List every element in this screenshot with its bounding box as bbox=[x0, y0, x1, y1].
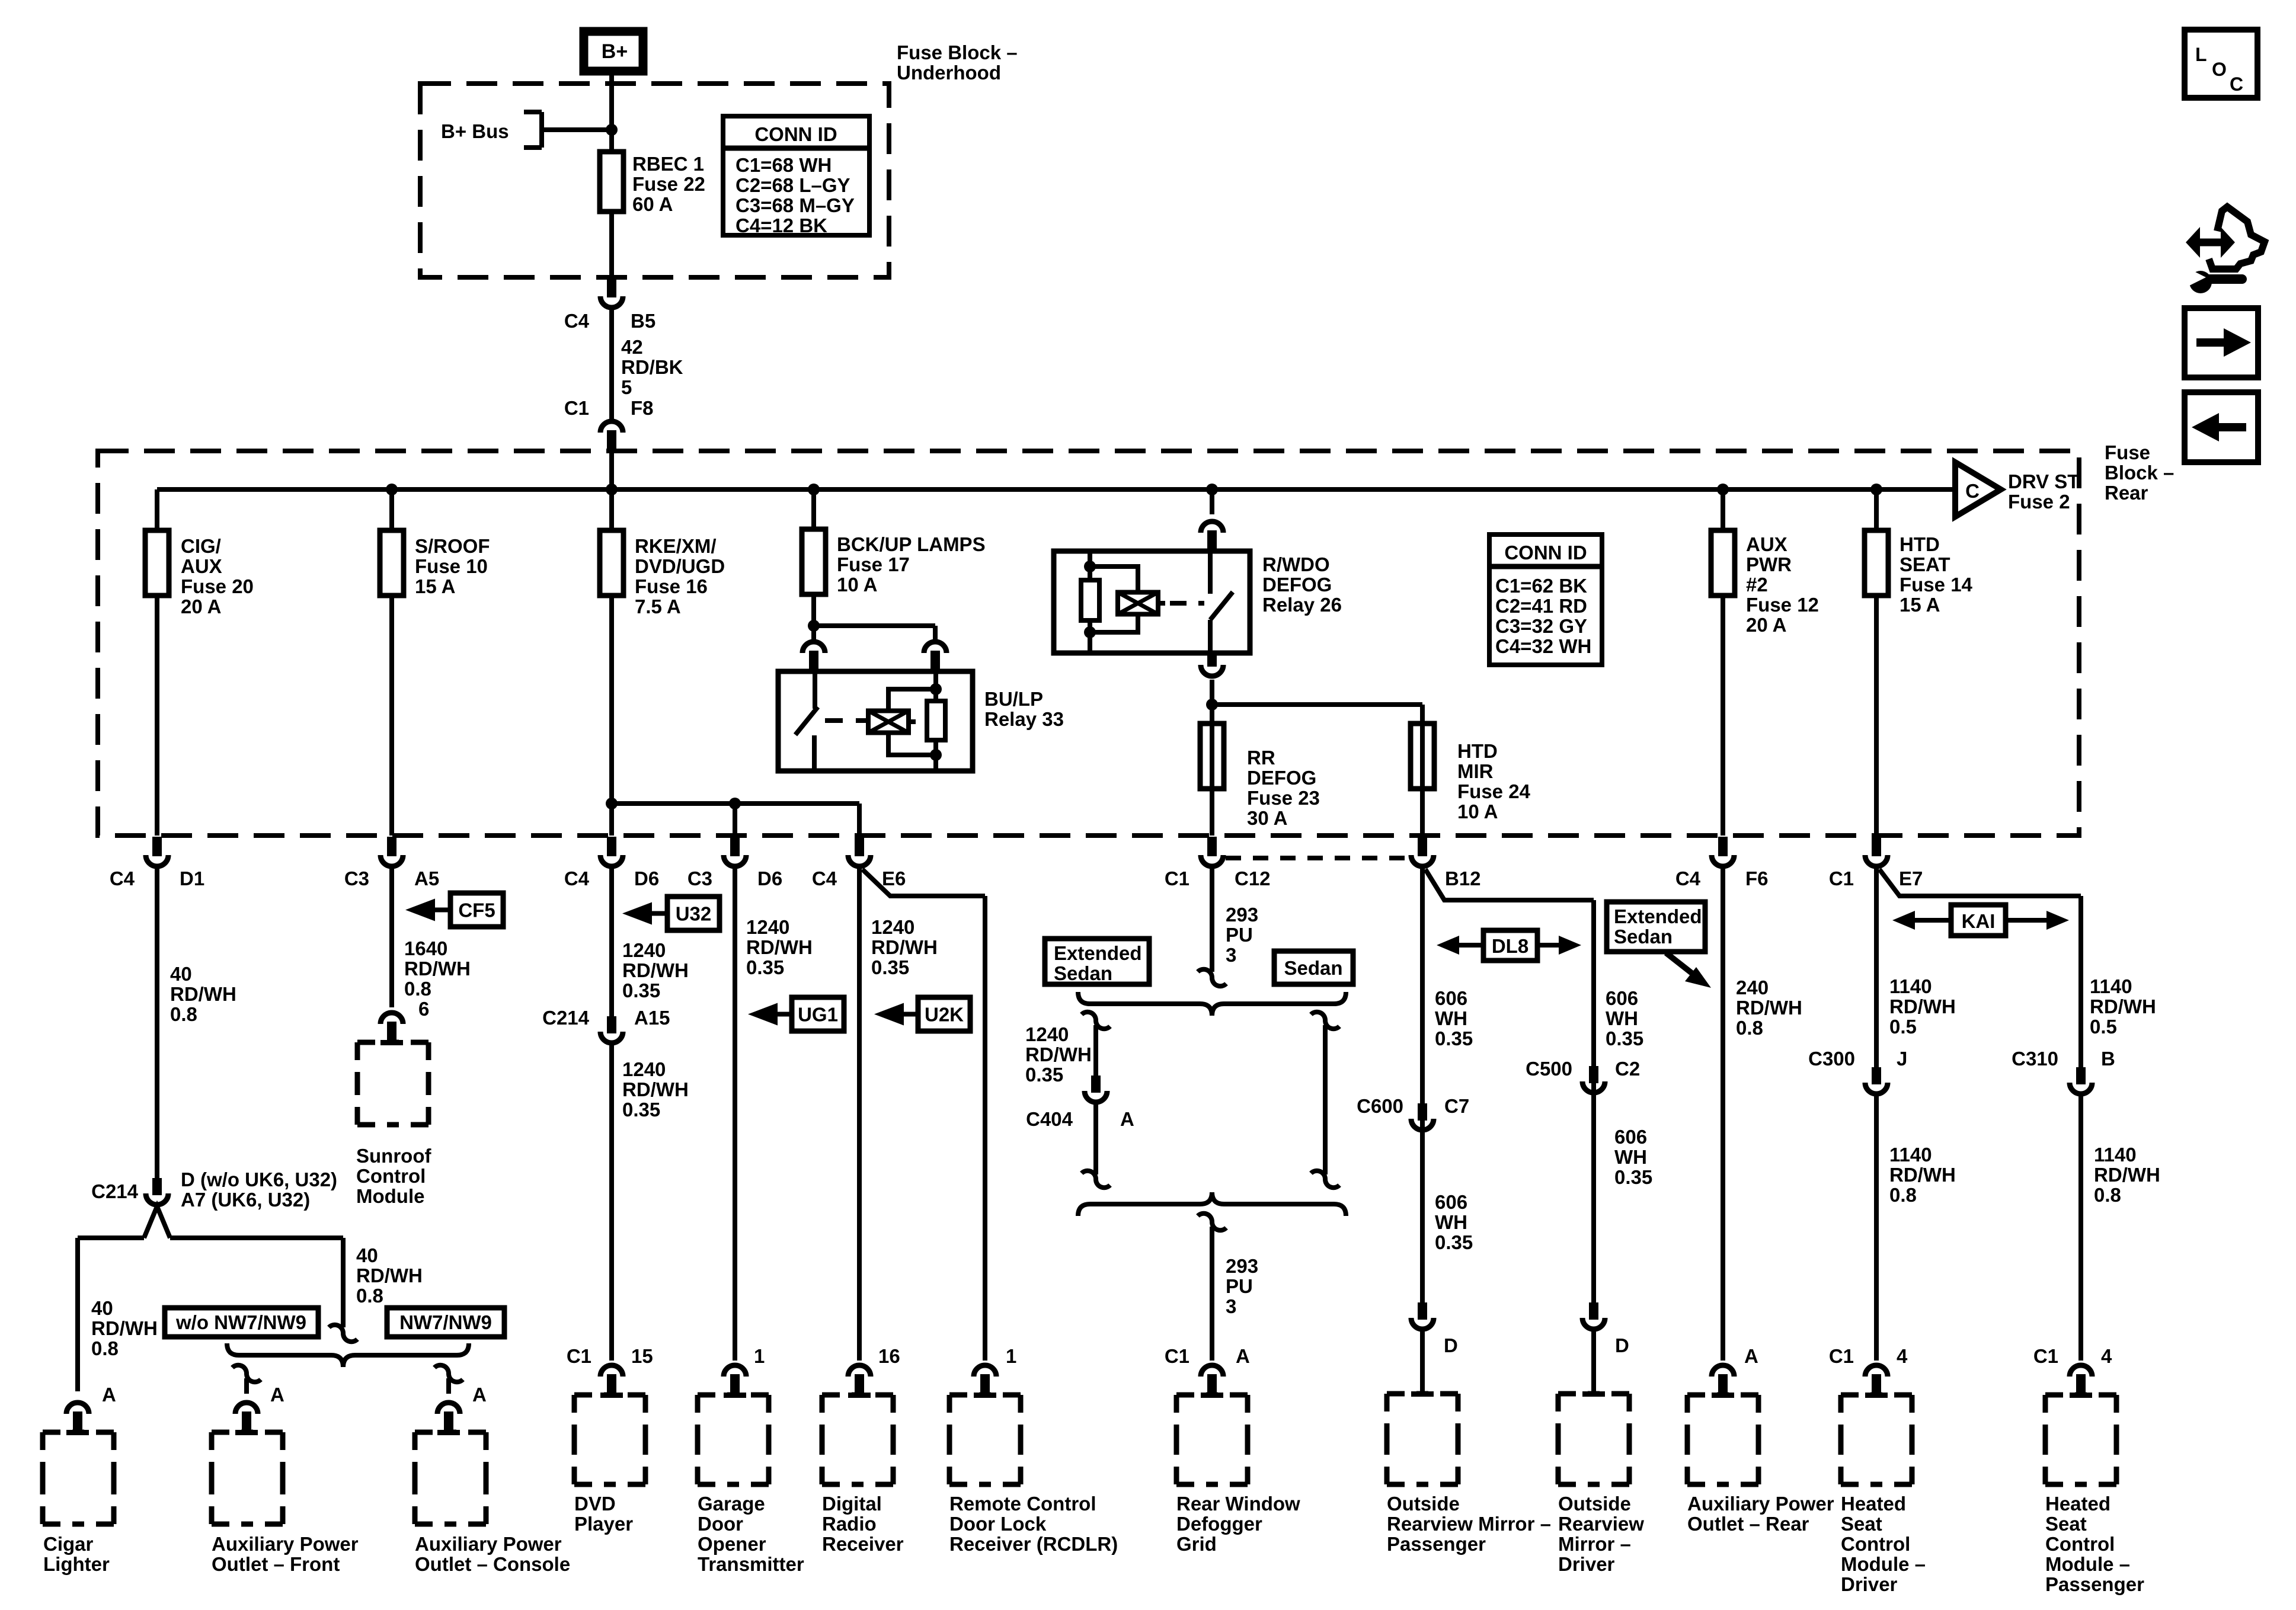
svg-text:1140: 1140 bbox=[2094, 1144, 2137, 1166]
svg-text:1240: 1240 bbox=[746, 916, 789, 938]
svg-text:RD/WH: RD/WH bbox=[356, 1265, 423, 1286]
svg-text:B5: B5 bbox=[631, 310, 655, 332]
svg-text:WH: WH bbox=[1435, 1211, 1467, 1233]
svg-text:C310: C310 bbox=[2012, 1048, 2058, 1070]
svg-text:Relay 33: Relay 33 bbox=[984, 708, 1064, 730]
svg-text:293: 293 bbox=[1226, 904, 1258, 926]
svg-text:C300: C300 bbox=[1808, 1048, 1855, 1070]
svg-text:C4=12 BK: C4=12 BK bbox=[736, 215, 827, 236]
svg-text:D: D bbox=[1444, 1334, 1458, 1356]
svg-text:C1=68 WH: C1=68 WH bbox=[736, 154, 832, 176]
svg-text:HTD: HTD bbox=[1900, 533, 1940, 555]
svg-text:F8: F8 bbox=[631, 397, 654, 419]
svg-text:RD/WH: RD/WH bbox=[170, 983, 236, 1005]
svg-text:B+ Bus: B+ Bus bbox=[441, 120, 509, 142]
svg-text:RD/WH: RD/WH bbox=[871, 936, 938, 958]
svg-text:RD/WH: RD/WH bbox=[1736, 997, 1802, 1019]
svg-text:C7: C7 bbox=[1444, 1095, 1469, 1117]
svg-text:1640: 1640 bbox=[404, 937, 447, 959]
svg-text:RKE/XM/: RKE/XM/ bbox=[635, 535, 717, 557]
svg-text:Remote Control: Remote Control bbox=[949, 1493, 1096, 1515]
svg-text:NW7/NW9: NW7/NW9 bbox=[399, 1311, 492, 1333]
svg-text:1140: 1140 bbox=[2090, 975, 2132, 997]
svg-text:Lighter: Lighter bbox=[43, 1553, 110, 1575]
svg-text:10 A: 10 A bbox=[837, 574, 877, 596]
svg-text:C214: C214 bbox=[542, 1007, 590, 1029]
svg-text:C2: C2 bbox=[1615, 1058, 1640, 1080]
svg-text:RD/WH: RD/WH bbox=[91, 1317, 158, 1339]
svg-text:A: A bbox=[1744, 1345, 1758, 1367]
svg-text:606: 606 bbox=[1435, 987, 1467, 1009]
svg-text:w/o NW7/NW9: w/o NW7/NW9 bbox=[175, 1311, 306, 1333]
svg-text:U2K: U2K bbox=[925, 1004, 964, 1026]
svg-text:C1: C1 bbox=[1165, 1345, 1189, 1367]
svg-text:C1: C1 bbox=[567, 1345, 591, 1367]
svg-text:DVD/UGD: DVD/UGD bbox=[635, 555, 725, 577]
svg-text:20 A: 20 A bbox=[1746, 614, 1786, 636]
svg-text:CONN ID: CONN ID bbox=[754, 123, 837, 145]
svg-text:A15: A15 bbox=[634, 1007, 670, 1029]
svg-text:1: 1 bbox=[754, 1345, 765, 1367]
svg-text:RD/BK: RD/BK bbox=[621, 356, 683, 378]
svg-text:Defogger: Defogger bbox=[1176, 1513, 1262, 1535]
svg-text:U32: U32 bbox=[676, 903, 712, 925]
svg-text:Extended: Extended bbox=[1054, 942, 1142, 964]
svg-text:Door: Door bbox=[698, 1513, 743, 1535]
svg-text:C12: C12 bbox=[1235, 868, 1271, 889]
svg-text:Fuse 10: Fuse 10 bbox=[415, 555, 488, 577]
svg-text:42: 42 bbox=[621, 336, 643, 358]
svg-text:AUX: AUX bbox=[1746, 533, 1787, 555]
svg-text:BU/LP: BU/LP bbox=[984, 688, 1043, 710]
svg-text:C4: C4 bbox=[812, 868, 837, 889]
svg-text:0.8: 0.8 bbox=[356, 1285, 383, 1307]
svg-text:Fuse 24: Fuse 24 bbox=[1457, 780, 1531, 802]
svg-text:40: 40 bbox=[91, 1297, 113, 1319]
svg-text:RD/WH: RD/WH bbox=[1025, 1044, 1092, 1065]
svg-text:L: L bbox=[2195, 44, 2207, 65]
svg-text:Rear Window: Rear Window bbox=[1176, 1493, 1300, 1515]
svg-text:Receiver (RCDLR): Receiver (RCDLR) bbox=[949, 1533, 1118, 1555]
svg-text:606: 606 bbox=[1614, 1126, 1647, 1148]
svg-text:Control: Control bbox=[356, 1165, 426, 1187]
svg-text:C3=68 M–GY: C3=68 M–GY bbox=[736, 194, 855, 216]
svg-text:C1=62 BK: C1=62 BK bbox=[1495, 575, 1587, 597]
svg-text:Fuse 16: Fuse 16 bbox=[635, 575, 708, 597]
svg-text:Passenger: Passenger bbox=[1387, 1533, 1486, 1555]
svg-text:1240: 1240 bbox=[1025, 1023, 1069, 1045]
svg-text:606: 606 bbox=[1435, 1191, 1467, 1213]
svg-text:Driver: Driver bbox=[1841, 1573, 1898, 1595]
svg-text:WH: WH bbox=[1606, 1007, 1638, 1029]
svg-text:E7: E7 bbox=[1899, 868, 1923, 889]
svg-text:B12: B12 bbox=[1445, 868, 1481, 889]
svg-text:Transmitter: Transmitter bbox=[698, 1553, 804, 1575]
svg-text:606: 606 bbox=[1606, 987, 1638, 1009]
svg-text:BCK/UP LAMPS: BCK/UP LAMPS bbox=[837, 533, 986, 555]
svg-text:B+: B+ bbox=[602, 40, 628, 63]
svg-text:WH: WH bbox=[1614, 1146, 1647, 1168]
svg-text:0.5: 0.5 bbox=[2090, 1016, 2117, 1038]
svg-text:C4: C4 bbox=[564, 310, 590, 332]
svg-text:C1: C1 bbox=[1829, 1345, 1854, 1367]
svg-text:C214: C214 bbox=[91, 1180, 139, 1202]
svg-text:CIG/: CIG/ bbox=[181, 535, 221, 557]
svg-text:30 A: 30 A bbox=[1247, 807, 1287, 829]
svg-text:Control: Control bbox=[1841, 1533, 1910, 1555]
svg-text:C3=32 GY: C3=32 GY bbox=[1495, 615, 1587, 637]
svg-text:0.8: 0.8 bbox=[1736, 1017, 1763, 1039]
svg-text:RD/WH: RD/WH bbox=[2094, 1164, 2160, 1186]
svg-text:RD/WH: RD/WH bbox=[2090, 996, 2156, 1017]
svg-text:Module –: Module – bbox=[2045, 1553, 2130, 1575]
svg-text:RD/WH: RD/WH bbox=[746, 936, 813, 958]
svg-text:D1: D1 bbox=[180, 868, 204, 889]
svg-text:C4: C4 bbox=[1675, 868, 1701, 889]
svg-text:Fuse Block –: Fuse Block – bbox=[897, 41, 1018, 63]
svg-text:C2=41 RD: C2=41 RD bbox=[1495, 595, 1587, 617]
svg-text:D6: D6 bbox=[634, 868, 659, 889]
svg-text:Outside: Outside bbox=[1558, 1493, 1631, 1515]
svg-text:Auxiliary Power: Auxiliary Power bbox=[212, 1533, 359, 1555]
svg-text:C: C bbox=[1965, 480, 1980, 502]
svg-text:B: B bbox=[2101, 1048, 2115, 1070]
svg-text:O: O bbox=[2212, 59, 2227, 80]
svg-text:RD/WH: RD/WH bbox=[622, 1078, 689, 1100]
svg-text:5: 5 bbox=[621, 376, 632, 398]
svg-text:PU: PU bbox=[1226, 1275, 1253, 1297]
svg-text:RD/WH: RD/WH bbox=[622, 959, 689, 981]
svg-text:C1: C1 bbox=[2033, 1345, 2058, 1367]
svg-text:15 A: 15 A bbox=[415, 575, 455, 597]
svg-text:RD/WH: RD/WH bbox=[1889, 996, 1956, 1017]
svg-text:Fuse 14: Fuse 14 bbox=[1900, 574, 1973, 596]
svg-text:0.8: 0.8 bbox=[404, 978, 431, 1000]
svg-text:0.8: 0.8 bbox=[170, 1003, 197, 1025]
svg-text:293: 293 bbox=[1226, 1255, 1258, 1277]
svg-text:DEFOG: DEFOG bbox=[1262, 574, 1332, 596]
svg-text:Outlet – Front: Outlet – Front bbox=[212, 1553, 340, 1575]
svg-text:Receiver: Receiver bbox=[822, 1533, 904, 1555]
svg-text:Fuse 23: Fuse 23 bbox=[1247, 787, 1320, 809]
svg-text:C: C bbox=[2230, 73, 2243, 95]
svg-text:15: 15 bbox=[631, 1345, 653, 1367]
svg-text:CONN ID: CONN ID bbox=[1504, 542, 1587, 564]
svg-text:0.8: 0.8 bbox=[91, 1337, 119, 1359]
svg-text:DEFOG: DEFOG bbox=[1247, 767, 1316, 789]
svg-text:40: 40 bbox=[170, 963, 192, 985]
svg-text:Grid: Grid bbox=[1176, 1533, 1217, 1555]
svg-text:Door Lock: Door Lock bbox=[949, 1513, 1047, 1535]
svg-text:6: 6 bbox=[418, 998, 429, 1020]
svg-text:C4: C4 bbox=[564, 868, 590, 889]
svg-text:20 A: 20 A bbox=[181, 596, 221, 617]
svg-text:A: A bbox=[270, 1384, 284, 1406]
svg-text:Outlet – Rear: Outlet – Rear bbox=[1687, 1513, 1809, 1535]
svg-text:Relay 26: Relay 26 bbox=[1262, 594, 1342, 616]
svg-text:AUX: AUX bbox=[181, 555, 222, 577]
svg-text:A5: A5 bbox=[414, 868, 439, 889]
svg-text:7.5 A: 7.5 A bbox=[635, 596, 681, 617]
svg-text:Auxiliary Power: Auxiliary Power bbox=[1687, 1493, 1834, 1515]
svg-text:Fuse 12: Fuse 12 bbox=[1746, 594, 1819, 616]
svg-text:DRV ST: DRV ST bbox=[2008, 470, 2079, 492]
svg-text:Cigar: Cigar bbox=[43, 1533, 94, 1555]
svg-text:C1: C1 bbox=[1829, 868, 1854, 889]
svg-text:Rearview Mirror –: Rearview Mirror – bbox=[1387, 1513, 1551, 1535]
svg-text:C2=68 L–GY: C2=68 L–GY bbox=[736, 174, 850, 196]
svg-text:Rear: Rear bbox=[2105, 482, 2148, 504]
svg-text:Heated: Heated bbox=[1841, 1493, 1906, 1515]
svg-text:1: 1 bbox=[1006, 1345, 1016, 1367]
svg-text:Block –: Block – bbox=[2105, 462, 2174, 484]
svg-text:Driver: Driver bbox=[1558, 1553, 1615, 1575]
svg-text:A: A bbox=[472, 1384, 487, 1406]
svg-text:HTD: HTD bbox=[1457, 740, 1498, 762]
svg-text:0.5: 0.5 bbox=[1889, 1016, 1917, 1038]
svg-text:C4=32 WH: C4=32 WH bbox=[1495, 635, 1591, 657]
svg-text:0.35: 0.35 bbox=[622, 980, 660, 1001]
svg-text:Fuse 22: Fuse 22 bbox=[632, 173, 705, 195]
svg-text:0.35: 0.35 bbox=[1606, 1028, 1643, 1049]
svg-text:4: 4 bbox=[2101, 1345, 2112, 1367]
svg-text:A: A bbox=[1236, 1345, 1250, 1367]
svg-text:10 A: 10 A bbox=[1457, 801, 1498, 822]
svg-text:3: 3 bbox=[1226, 1295, 1236, 1317]
svg-text:Control: Control bbox=[2045, 1533, 2115, 1555]
svg-text:16: 16 bbox=[878, 1345, 900, 1367]
svg-text:C1: C1 bbox=[1165, 868, 1189, 889]
svg-text:Mirror –: Mirror – bbox=[1558, 1533, 1631, 1555]
svg-text:1240: 1240 bbox=[622, 939, 666, 961]
svg-text:1140: 1140 bbox=[1889, 975, 1932, 997]
svg-text:#2: #2 bbox=[1746, 574, 1768, 596]
svg-text:1240: 1240 bbox=[871, 916, 914, 938]
svg-text:DL8: DL8 bbox=[1492, 935, 1528, 957]
svg-text:RR: RR bbox=[1247, 747, 1275, 769]
svg-text:Sedan: Sedan bbox=[1614, 926, 1673, 948]
svg-text:Opener: Opener bbox=[698, 1533, 766, 1555]
svg-text:Digital: Digital bbox=[822, 1493, 882, 1515]
svg-text:Outside: Outside bbox=[1387, 1493, 1460, 1515]
svg-text:0.35: 0.35 bbox=[1435, 1231, 1473, 1253]
svg-text:0.8: 0.8 bbox=[1889, 1184, 1917, 1206]
svg-text:J: J bbox=[1897, 1048, 1907, 1070]
svg-text:C1: C1 bbox=[564, 397, 589, 419]
svg-text:D6: D6 bbox=[757, 868, 782, 889]
svg-text:Sedan: Sedan bbox=[1054, 962, 1112, 984]
svg-text:Heated: Heated bbox=[2045, 1493, 2110, 1515]
svg-text:KAI: KAI bbox=[1962, 910, 1996, 932]
svg-text:C4: C4 bbox=[110, 868, 135, 889]
svg-text:Fuse: Fuse bbox=[2105, 441, 2150, 463]
svg-text:A: A bbox=[1120, 1108, 1134, 1130]
svg-text:1240: 1240 bbox=[622, 1058, 666, 1080]
svg-text:S/ROOF: S/ROOF bbox=[415, 535, 490, 557]
svg-text:C3: C3 bbox=[687, 868, 712, 889]
svg-text:0.35: 0.35 bbox=[1025, 1064, 1063, 1086]
svg-text:MIR: MIR bbox=[1457, 760, 1494, 782]
svg-text:0.35: 0.35 bbox=[1614, 1166, 1652, 1188]
svg-text:Seat: Seat bbox=[1841, 1513, 1882, 1535]
svg-text:C600: C600 bbox=[1357, 1095, 1403, 1117]
svg-text:15 A: 15 A bbox=[1900, 594, 1940, 616]
svg-text:4: 4 bbox=[1897, 1345, 1908, 1367]
svg-text:A7 (UK6, U32): A7 (UK6, U32) bbox=[181, 1189, 310, 1211]
svg-text:PU: PU bbox=[1226, 924, 1253, 946]
svg-text:Sunroof: Sunroof bbox=[356, 1145, 431, 1167]
svg-text:Fuse 20: Fuse 20 bbox=[181, 575, 254, 597]
svg-text:F6: F6 bbox=[1745, 868, 1769, 889]
svg-text:RD/WH: RD/WH bbox=[404, 958, 471, 980]
svg-text:0.35: 0.35 bbox=[1435, 1028, 1473, 1049]
svg-text:Rearview: Rearview bbox=[1558, 1513, 1644, 1535]
svg-text:DVD: DVD bbox=[574, 1493, 616, 1515]
svg-text:0.35: 0.35 bbox=[871, 956, 909, 978]
svg-text:Fuse 17: Fuse 17 bbox=[837, 553, 910, 575]
svg-text:C3: C3 bbox=[344, 868, 369, 889]
svg-text:E6: E6 bbox=[882, 868, 906, 889]
svg-text:Garage: Garage bbox=[698, 1493, 765, 1515]
svg-text:Passenger: Passenger bbox=[2045, 1573, 2144, 1595]
svg-text:1140: 1140 bbox=[1889, 1144, 1932, 1166]
svg-text:0.35: 0.35 bbox=[746, 956, 784, 978]
svg-text:60 A: 60 A bbox=[632, 193, 673, 215]
svg-text:UG1: UG1 bbox=[798, 1004, 838, 1026]
svg-text:Sedan: Sedan bbox=[1284, 957, 1342, 979]
svg-text:Player: Player bbox=[574, 1513, 633, 1535]
svg-text:Auxiliary Power: Auxiliary Power bbox=[415, 1533, 562, 1555]
svg-text:CF5: CF5 bbox=[458, 900, 495, 921]
svg-text:Underhood: Underhood bbox=[897, 62, 1001, 84]
svg-text:0.8: 0.8 bbox=[2094, 1184, 2121, 1206]
svg-text:PWR: PWR bbox=[1746, 553, 1792, 575]
svg-text:D (w/o UK6, U32): D (w/o UK6, U32) bbox=[181, 1169, 337, 1190]
svg-text:D: D bbox=[1615, 1334, 1629, 1356]
svg-text:SEAT: SEAT bbox=[1900, 553, 1950, 575]
svg-text:Module –: Module – bbox=[1841, 1553, 1926, 1575]
svg-text:3: 3 bbox=[1226, 944, 1236, 966]
svg-text:WH: WH bbox=[1435, 1007, 1467, 1029]
svg-text:C500: C500 bbox=[1526, 1058, 1572, 1080]
svg-text:Extended: Extended bbox=[1614, 905, 1702, 927]
svg-text:0.35: 0.35 bbox=[622, 1099, 660, 1121]
svg-text:Seat: Seat bbox=[2045, 1513, 2087, 1535]
svg-text:R/WDO: R/WDO bbox=[1262, 553, 1330, 575]
svg-text:RBEC 1: RBEC 1 bbox=[632, 153, 704, 175]
svg-text:Fuse 2: Fuse 2 bbox=[2008, 491, 2070, 513]
svg-text:Module: Module bbox=[356, 1185, 424, 1207]
svg-text:Radio: Radio bbox=[822, 1513, 877, 1535]
svg-text:A: A bbox=[102, 1384, 116, 1406]
svg-text:240: 240 bbox=[1736, 977, 1769, 998]
svg-text:RD/WH: RD/WH bbox=[1889, 1164, 1956, 1186]
svg-text:40: 40 bbox=[356, 1244, 378, 1266]
svg-text:Outlet – Console: Outlet – Console bbox=[415, 1553, 570, 1575]
svg-text:C404: C404 bbox=[1026, 1108, 1073, 1130]
